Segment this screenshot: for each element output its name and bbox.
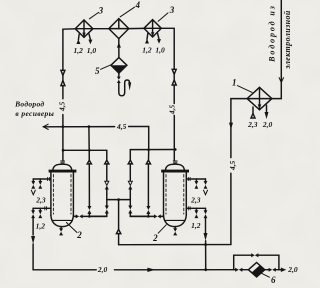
- drain stem with down-arrow, value 1,0 under purifier 3 left: [88, 34, 92, 44]
- wire: pipe dryer 4 to purifier 3 (right): [129, 27, 144, 29]
- junction: left stub / column 1: [88, 215, 91, 218]
- vessel 2 (left) bottom drain valve: [59, 227, 63, 236]
- svg-text:2,3: 2,3: [35, 195, 46, 204]
- valve (bowtie) lower on column 2: [105, 206, 109, 214]
- pointer line for label 4: [120, 7, 134, 17]
- vent drop L4 with valve: [38, 208, 42, 218]
- column 4 (x=148.4): from header corner through B-right down to right stub: [147, 150, 149, 217]
- valve (open bowtie) on right riser: [172, 69, 176, 85]
- inner stub right: vessel 2 (right) side nozzle to columns: [130, 214, 163, 218]
- svg-text:Водород: Водород: [14, 99, 44, 108]
- vessel 2 (right) bottom drain valve: [173, 227, 177, 236]
- vent drop L1 with valve and open down-chevron: [31, 179, 35, 195]
- svg-text:электролизной: электролизной: [283, 10, 292, 70]
- svg-text:6: 6: [271, 275, 276, 285]
- outlet arrow and 2,0 after pump: [281, 268, 286, 273]
- wire: header pipe from left corner into purifier 3 (left): [63, 28, 75, 30]
- wire: purifier 1 left vertex to riser: [231, 98, 247, 100]
- pointer line for label 6: [262, 273, 270, 277]
- blowdown main line y=269.8 with 2,0 label gap: [33, 269, 235, 271]
- incoming line from electrolysis with open down-chevron: [272, 0, 284, 99]
- valve (bowtie) before pump 6: [235, 268, 248, 272]
- stem with down-arrow, value 2,0 under purifier 1: [265, 105, 269, 119]
- drain stem with up-arrow, value 1,2 under purifier 3 right: [145, 34, 149, 44]
- wire: left riser from header corner down to receiver line: [62, 29, 64, 161]
- valve (bowtie) on column 1: [87, 206, 91, 214]
- valve (bowtie) on column 4: [146, 206, 150, 214]
- check symbol (open triangle) on column 4: [146, 160, 150, 164]
- junction: manifold B-left / column 1: [88, 149, 91, 152]
- vessel 2 (left) top collar flange: [60, 161, 65, 164]
- svg-text:1: 1: [232, 77, 237, 87]
- svg-text:5: 5: [95, 66, 100, 76]
- pointer line for label 2 (left vessel): [66, 223, 77, 233]
- flow arrow on blowdown main: [147, 268, 155, 272]
- manifold B-left over vessel 2 (left): [63, 150, 107, 160]
- pointer line for label 3 (left): [89, 12, 98, 18]
- stem with open up-triangle, value 2,3 under purifier 1: [251, 107, 255, 118]
- pointer line for label 5: [101, 65, 111, 69]
- svg-text:3: 3: [169, 5, 175, 15]
- purifier 3 (right diamond): [144, 20, 161, 37]
- valve (bowtie) after pump 6: [265, 268, 281, 272]
- svg-text:в ресиверы: в ресиверы: [15, 109, 54, 118]
- valve (bowtie) upper on column 2: [105, 181, 109, 189]
- drain drop L3 with valve, long down line and arrow to blowdown main: [31, 208, 35, 269]
- wire: pipe purifier3(left) to dryer 4: [93, 28, 109, 30]
- right cluster: lower drain stub y=208.3: [187, 207, 206, 210]
- svg-text:Водород из: Водород из: [268, 4, 277, 63]
- junction: receiver header / column 1: [88, 125, 91, 128]
- svg-text:3: 3: [98, 5, 104, 15]
- valve (bowtie) upper on column 3: [128, 181, 132, 189]
- valve (open bowtie) on left riser: [61, 70, 65, 85]
- junction: feed manifold / drain R4: [204, 243, 207, 246]
- svg-text:4: 4: [135, 0, 141, 10]
- pointer line for label 2 (right vessel): [158, 225, 166, 233]
- manifold B-right over vessel 2 (right): [130, 150, 175, 161]
- svg-text:1,2: 1,2: [142, 46, 152, 55]
- center drop from bridge with open up-arrow, to bottom manifold: [116, 200, 120, 245]
- down arrow on electrolysis riser x=231: [229, 123, 233, 130]
- svg-text:2: 2: [152, 233, 158, 243]
- svg-text:4,5: 4,5: [167, 105, 176, 116]
- svg-text:1,2: 1,2: [74, 46, 84, 55]
- vertical pipe from dryer 4 down to separator 5, with up arrow: [117, 39, 121, 58]
- valve (vertical bowtie) under separator 5: [117, 73, 121, 83]
- left cluster: upper vent stub y=179: [33, 177, 51, 180]
- svg-text:4,5: 4,5: [57, 101, 66, 112]
- junction: manifold B-right / column 4: [147, 148, 150, 151]
- svg-text:2,3: 2,3: [247, 120, 258, 129]
- svg-text:1,2: 1,2: [36, 222, 46, 231]
- check symbol (open triangle) on column 1: [87, 160, 91, 164]
- vent drop R1 with valve: [195, 179, 199, 189]
- check symbol (open triangle) on column 3: [128, 160, 132, 164]
- separator 5 (diamond, lower half filled): [111, 58, 127, 74]
- junction: manifold B-left / vessel riser: [62, 149, 65, 152]
- column 2 (x=106.8): B-left corner down through bridge to left stub corner: [89, 164, 106, 216]
- left cluster: lower drain stub y=208.3: [33, 207, 51, 210]
- junction: bridge center: [117, 198, 120, 201]
- vent drop R2 with valve and open down-chevron: [204, 179, 208, 195]
- purifier 1 (diamond): [247, 87, 272, 109]
- svg-text:2,0: 2,0: [262, 120, 273, 129]
- drain stem with up-arrow, value 1,2 under purifier 3 left: [76, 34, 80, 44]
- valve (bowtie) lower on column 3: [128, 206, 132, 214]
- junction: manifold B-right / right riser: [174, 148, 177, 151]
- bridge between column 2 and column 3: [107, 199, 131, 201]
- check symbol (open triangle) on column 2: [105, 160, 109, 164]
- svg-text:1,0: 1,0: [87, 46, 97, 55]
- svg-text:2,0: 2,0: [287, 265, 298, 274]
- junction: receiver header / left riser: [62, 125, 65, 128]
- vent drop L2 with valve: [38, 179, 42, 189]
- junction: blowdown main / drain R4: [204, 268, 207, 271]
- svg-text:2,3: 2,3: [190, 195, 201, 204]
- right cluster: upper vent stub y=179: [187, 177, 206, 180]
- vessel 2 (right) top collar flange: [173, 161, 178, 164]
- wire: pipe purifier 3 (right) to right corner: [161, 28, 174, 69]
- wire: right riser from corner down to vessel 2 (right), pressure 4,5: [173, 74, 175, 160]
- dryer 4 (middle diamond): [109, 19, 129, 39]
- svg-text:2: 2: [76, 230, 82, 240]
- pump 6 (diamond, lower-right filled): [248, 263, 264, 277]
- water-seal J-tube drain with down arrow: [119, 80, 131, 96]
- drain stem with down-arrow, value 1,0 under purifier 3 right: [157, 34, 161, 44]
- vessel 2 (right): dome, flange, shell, bottom: [161, 164, 189, 226]
- svg-text:4,5: 4,5: [116, 122, 127, 131]
- drain drop R4 with valve, arrow, down to bottom manifold: [204, 208, 208, 269]
- bypass loop over pump 6 with valve: [234, 253, 279, 270]
- vent drop R3 with valve: [195, 208, 199, 218]
- column 3 (x=130.3): B-right corner down through bridge to right stub corner: [130, 164, 148, 216]
- pointer line for label 3 (right): [158, 13, 168, 21]
- feed manifold y=244.7 from center drop to electrolysis riser: [119, 99, 231, 245]
- junction: right stub / column 4: [147, 215, 150, 218]
- vessel 2 (left): dome, flange, shell, bottom: [49, 164, 77, 226]
- svg-text:1,0: 1,0: [155, 46, 165, 55]
- svg-text:1,2: 1,2: [191, 221, 201, 230]
- column 1 (x=89): from receiver header through B-left down to vessel stub: [88, 127, 91, 217]
- inner stub left: vessel 2 (left) side nozzle to columns: [74, 214, 107, 218]
- svg-text:4,5: 4,5: [228, 160, 237, 171]
- receiver header: line to receivers with open left arrow, pressure 4,5: [43, 124, 148, 150]
- pointer line for label 1: [237, 86, 252, 93]
- purifier 3 (left diamond): [75, 20, 93, 37]
- svg-text:2,0: 2,0: [97, 265, 108, 274]
